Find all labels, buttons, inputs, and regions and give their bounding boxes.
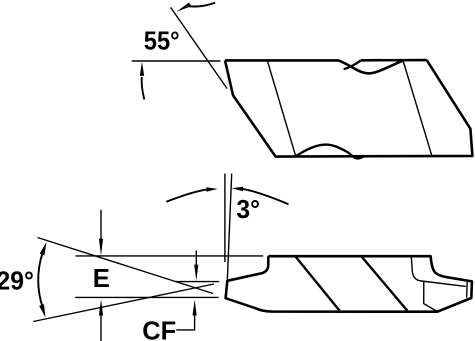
side view: notch far flank — [411, 257, 466, 287]
side view: 3deg right arc — [243, 189, 289, 204]
top view: interior line right — [403, 62, 432, 156]
top view: 55deg upper arc — [186, 3, 215, 7]
top view: interior line left — [268, 62, 296, 156]
top view: insert outline — [225, 60, 403, 73]
svg-text:CF: CF — [142, 317, 176, 341]
side view: front face extension line 3deg — [227, 174, 231, 281]
side view: 29deg lower wedge line — [33, 284, 214, 322]
side view: 29deg bottom arrowhead — [39, 304, 45, 317]
side view: 29deg arc — [38, 252, 43, 307]
top view: 55deg lower arrowhead — [140, 62, 144, 76]
side view: H3 lower level line — [75, 296, 218, 298]
side view: 3deg left arc — [166, 190, 206, 202]
top view: 55deg upper arrowhead — [177, 2, 192, 11]
top view: 55deg diagonal line — [171, 7, 228, 88]
side view: hatch line A — [296, 257, 340, 311]
top view: right edge, bottom edge, left edge — [225, 60, 472, 157]
side view: H1 top face extension line — [76, 255, 264, 257]
svg-text:55°: 55° — [144, 27, 180, 55]
side view: CF dimension top arrow — [195, 250, 197, 266]
side view: vertical reference line for 3deg — [224, 174, 226, 263]
side view: 3deg right arrowhead — [232, 187, 244, 192]
side view: 29deg upper wedge line — [38, 238, 214, 294]
svg-text:3°: 3° — [236, 196, 260, 225]
side view: 3deg left arrowhead — [206, 187, 218, 192]
side view: insert profile outline — [226, 256, 472, 312]
side view: H2 tip level line — [176, 281, 220, 283]
side view: far bottom chamfer — [424, 281, 438, 311]
side view: hatch line B — [362, 257, 408, 311]
svg-text:29°: 29° — [0, 267, 34, 296]
side view: inner end vertical — [466, 282, 469, 298]
top view: notch cross curve — [344, 60, 361, 69]
side view: E dimension bottom arrow — [99, 299, 103, 315]
svg-text:E: E — [93, 265, 110, 293]
top view: bottom notch bump — [296, 145, 364, 159]
top view: 55deg reference horizontal line — [132, 60, 221, 62]
side view: 29deg top arrowhead — [40, 242, 47, 255]
top view: 55deg lower arc — [142, 77, 145, 100]
side view: E dimension top arrow — [100, 210, 102, 241]
side view: CF dimension bottom arrow with leader — [193, 300, 197, 316]
top view: top edge right part — [361, 59, 427, 62]
